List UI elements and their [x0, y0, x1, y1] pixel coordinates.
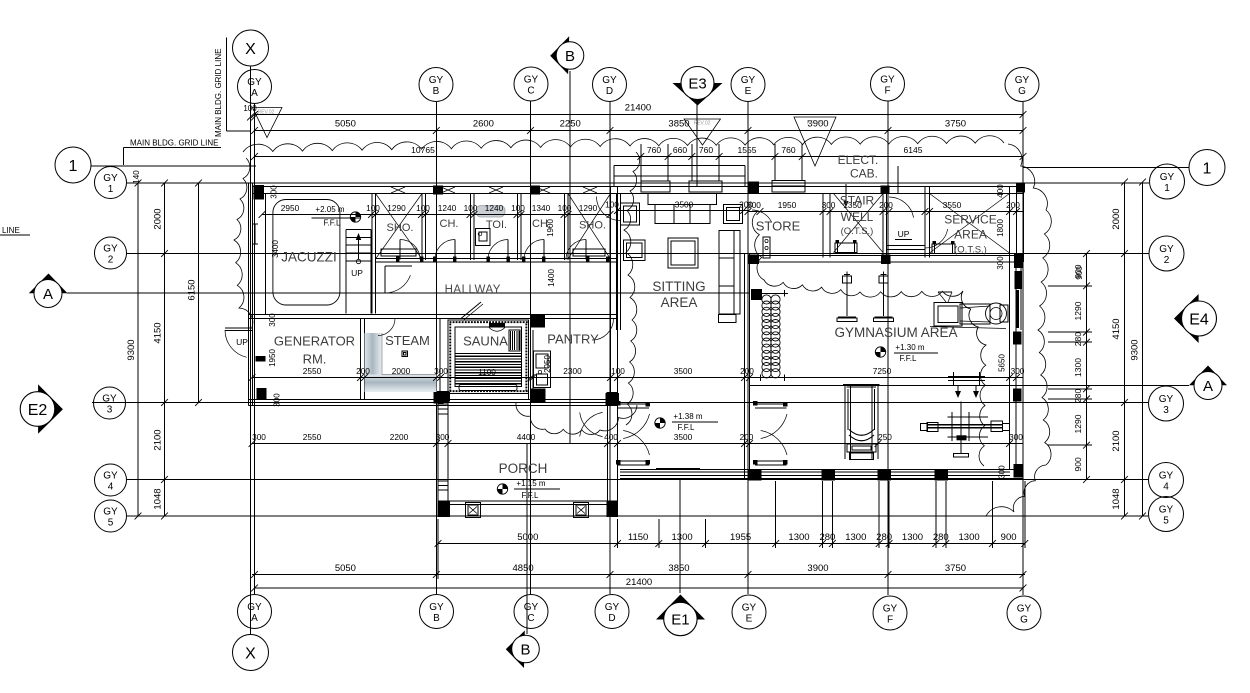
svg-text:REV.02: REV.02 [807, 120, 824, 126]
section line A-A left [67, 292, 750, 294]
sitting coffee table [668, 238, 698, 268]
column hall door jamb [751, 289, 762, 300]
svg-text:1048: 1048 [153, 488, 164, 509]
wall gym west [745, 254, 750, 481]
svg-text:GY: GY [883, 604, 898, 615]
extension lines bottom dims [438, 481, 1025, 579]
svg-text:CH.: CH. [532, 218, 551, 230]
grid bubble GY-E top [731, 68, 765, 102]
svg-text:3500: 3500 [674, 366, 693, 376]
dim line bottom 5050/4850/3850/3900/3750 [251, 563, 1026, 578]
label SAUNA [463, 334, 508, 349]
wall generator/steam [361, 319, 365, 400]
grid line 1 (main bldg, right) [1023, 167, 1189, 169]
svg-text:SHO.: SHO. [387, 222, 414, 234]
dim line top 10765/760/660/760/1555/760/6145 [251, 145, 1026, 160]
shower room 2 cross [568, 194, 611, 260]
svg-text:3500: 3500 [674, 432, 693, 442]
section marker A left [29, 274, 68, 308]
dim line interior lower rooms [249, 366, 1025, 381]
svg-text:250: 250 [878, 432, 892, 442]
svg-text:LINE: LINE [2, 226, 20, 235]
svg-text:200: 200 [740, 432, 754, 442]
stairs by jacuzzi [346, 229, 371, 313]
wall gym east [1010, 262, 1022, 470]
section marker E2 left [20, 384, 63, 433]
wall steam east [437, 319, 441, 400]
svg-text:1240: 1240 [438, 203, 457, 213]
svg-text:100: 100 [464, 203, 478, 213]
column gym south c [935, 469, 949, 481]
grid bubble GY-A top [238, 70, 272, 104]
label main bldg grid line horizontal [124, 139, 221, 166]
svg-text:5: 5 [1163, 516, 1169, 527]
svg-text:UP: UP [236, 337, 248, 347]
grid line GY-C [530, 101, 532, 594]
svg-text:GY: GY [1159, 505, 1174, 516]
label main bldg grid line vertical [214, 38, 251, 138]
svg-text:900: 900 [1001, 532, 1017, 543]
svg-text:1100: 1100 [478, 367, 496, 377]
steam room grey bench [365, 333, 437, 392]
svg-text:3400: 3400 [271, 240, 280, 258]
column GY-A/1 [254, 185, 265, 200]
column gym-east c [1013, 389, 1022, 402]
svg-text:900: 900 [1073, 457, 1083, 471]
svg-text:2200: 2200 [390, 432, 409, 442]
svg-text:G: G [1020, 615, 1028, 626]
svg-text:B: B [565, 48, 575, 65]
svg-text:D: D [608, 613, 615, 624]
svg-text:21400: 21400 [626, 577, 652, 588]
svg-text:UP: UP [898, 229, 910, 239]
svg-text:GY: GY [741, 75, 756, 86]
dim line 9300 left [126, 180, 141, 520]
column GY-F/1 [881, 186, 890, 195]
sitting sofa north [648, 194, 717, 224]
grid line GY-D [609, 102, 611, 594]
svg-text:2100: 2100 [1111, 430, 1122, 451]
section marker E1 bottom [656, 595, 705, 636]
door jamb posts hallway [396, 257, 609, 263]
section marker B bottom [506, 631, 540, 669]
svg-text:100: 100 [558, 203, 572, 213]
dim line 9300 right [1130, 179, 1146, 520]
wall gym north (GY-2) [748, 256, 1024, 263]
wall jacuzzi east [372, 194, 376, 314]
revision cloud gym inner band [752, 212, 986, 466]
column gym south b [822, 469, 836, 481]
svg-text:300: 300 [436, 432, 450, 442]
svg-text:MAIN BLDG. GRID LINE: MAIN BLDG. GRID LINE [130, 139, 218, 148]
door arc TOI [488, 240, 508, 260]
svg-text:1300: 1300 [788, 532, 809, 543]
sauna hatched walls [448, 320, 529, 394]
svg-text:GY: GY [103, 173, 118, 184]
svg-text:GY: GY [247, 77, 262, 88]
grid line X (main bldg) [250, 66, 252, 635]
service cross [930, 194, 1010, 254]
svg-text:A: A [43, 286, 53, 303]
revision triangle GY-E/F [794, 117, 836, 166]
svg-text:PANTRY: PANTRY [547, 332, 599, 347]
svg-text:100: 100 [605, 200, 619, 210]
svg-text:GY: GY [1160, 172, 1175, 183]
grid line GY-A [254, 104, 256, 594]
sauna lintel [489, 323, 505, 331]
svg-text:E3: E3 [688, 76, 706, 93]
svg-text:1300: 1300 [1073, 358, 1083, 377]
svg-text:STAIR: STAIR [840, 194, 875, 208]
wall pantry west [529, 330, 534, 400]
label STORE [756, 219, 801, 234]
svg-text:WELL: WELL [841, 210, 874, 224]
svg-text:E: E [745, 86, 752, 97]
svg-text:GY: GY [605, 602, 620, 613]
pantry north wall [533, 315, 618, 319]
svg-text:GY: GY [103, 244, 118, 255]
wall sitting west (GY-D lower) [617, 194, 621, 331]
svg-text:GY: GY [1159, 394, 1174, 405]
column porch SE [607, 501, 619, 518]
column GY-C/3 [531, 389, 546, 404]
sauna door diagonal [461, 302, 483, 321]
column porch NW [438, 392, 450, 402]
label JACUZZI [281, 250, 337, 265]
svg-text:5: 5 [108, 518, 114, 529]
svg-text:300: 300 [1009, 432, 1023, 442]
svg-text:TOI.: TOI. [486, 219, 507, 231]
svg-text:300: 300 [268, 313, 277, 327]
label UP generator [236, 337, 248, 347]
svg-text:GY: GY [103, 471, 118, 482]
service door arc [925, 229, 948, 248]
svg-text:2: 2 [1164, 255, 1170, 266]
jacuzzi tub [266, 194, 340, 315]
svg-text:140: 140 [132, 170, 141, 184]
grid line GY-B [435, 102, 437, 594]
hallway door leaf [384, 266, 386, 293]
grid line GY-F [887, 101, 889, 595]
svg-text:300: 300 [822, 200, 836, 210]
svg-text:1400: 1400 [547, 269, 556, 287]
sitting chaise east [719, 231, 741, 323]
sitting bay seats [641, 181, 722, 192]
label TOI [486, 219, 507, 231]
svg-text:F.F.L: F.F.L [900, 354, 917, 363]
label UP stairs [351, 268, 363, 278]
grid bubble GY-A bottom [238, 595, 272, 629]
svg-text:UP: UP [351, 268, 363, 278]
svg-text:21400: 21400 [625, 103, 651, 114]
column GY-D/3 [606, 393, 620, 406]
grid bubble 1 left [55, 147, 91, 183]
wall partition CH/SHO [565, 194, 569, 261]
grid bubble GY-B top [419, 68, 453, 102]
stairwell cross [834, 194, 884, 253]
svg-text:2300: 2300 [563, 366, 582, 376]
sauna dim 1100 [478, 367, 496, 377]
svg-text:1: 1 [1164, 183, 1170, 194]
section marker E4 right [1174, 294, 1217, 343]
svg-text:3850: 3850 [668, 563, 689, 574]
svg-text:100: 100 [511, 203, 525, 213]
steam room drain [402, 351, 408, 357]
level jacuzzi [312, 205, 362, 228]
svg-text:2100: 2100 [153, 429, 164, 450]
section line A-A right [750, 385, 1189, 387]
toilet room fixtures [476, 229, 491, 246]
svg-text:JACUZZI: JACUZZI [281, 250, 337, 265]
grid bubble X top [233, 30, 269, 66]
svg-text:GY: GY [103, 507, 118, 518]
svg-text:AREA: AREA [661, 295, 698, 310]
dim line 21400 top [251, 103, 1026, 118]
svg-text:2550: 2550 [303, 366, 322, 376]
porch column ornate east [574, 503, 589, 518]
svg-text:2250: 2250 [560, 119, 581, 130]
dim 100 GY-A offset [243, 104, 258, 120]
wall porch east [608, 392, 618, 517]
wall exterior east upper [1017, 183, 1024, 262]
svg-text:4150: 4150 [1111, 318, 1122, 339]
door arc SHO1 [400, 240, 420, 260]
svg-text:660: 660 [673, 145, 687, 155]
svg-text:X: X [245, 41, 256, 58]
svg-text:4850: 4850 [513, 563, 534, 574]
svg-text:1950: 1950 [778, 200, 797, 210]
revision cloud GY-D vertical band [624, 152, 640, 425]
store door arc [752, 210, 772, 222]
column GY-G/1 [1017, 183, 1025, 193]
svg-text:10765: 10765 [411, 145, 435, 155]
grid line GY-1 [127, 182, 1149, 184]
svg-text:1300: 1300 [902, 532, 923, 543]
section line E1 [679, 478, 681, 593]
grid line GY-G [1022, 102, 1024, 595]
wall service east [1010, 187, 1017, 263]
svg-text:400: 400 [604, 432, 618, 442]
svg-text:GYMNASIUM AREA: GYMNASIUM AREA [834, 325, 957, 340]
svg-text:4: 4 [108, 482, 114, 493]
grid bubble GY-4 left [95, 464, 127, 496]
store rack top [772, 181, 805, 193]
svg-text:GY: GY [1017, 604, 1032, 615]
svg-text:1300: 1300 [845, 532, 866, 543]
svg-text:STORE: STORE [756, 219, 801, 234]
svg-text:5050: 5050 [335, 563, 356, 574]
svg-text:3: 3 [1163, 405, 1169, 416]
svg-text:X: X [245, 646, 256, 663]
svg-text:E4: E4 [1189, 312, 1209, 329]
label HALLWAY [445, 284, 501, 296]
svg-text:4150: 4150 [153, 322, 164, 343]
column GY-B/3 [434, 391, 444, 404]
svg-text:2950: 2950 [281, 203, 300, 213]
svg-text:4: 4 [1163, 482, 1169, 493]
svg-text:GY: GY [429, 602, 444, 613]
sitting door west [597, 197, 621, 221]
section marker E3 top [673, 67, 723, 106]
svg-text:GY: GY [880, 75, 895, 86]
sitting armchair west [624, 240, 646, 261]
svg-text:1300: 1300 [959, 532, 980, 543]
extension lines window dims [641, 144, 802, 181]
svg-text:300: 300 [996, 256, 1005, 270]
column GY-E/1 [749, 182, 760, 194]
store coat rack [763, 237, 770, 258]
grid line GY-5 [127, 515, 1148, 517]
grid line 1 (main bldg, left) [91, 165, 256, 167]
grid line GY-2 [127, 253, 1149, 255]
svg-text:+1.15 m: +1.15 m [516, 479, 545, 488]
svg-text:3750: 3750 [945, 563, 966, 574]
grid bubble GY-D bottom [595, 595, 629, 629]
dim text 140 [132, 170, 141, 184]
svg-text:1: 1 [69, 158, 78, 175]
svg-text:SITTING: SITTING [652, 279, 705, 294]
gym treadmill [930, 292, 1008, 329]
gym lat machine [921, 372, 1010, 457]
grid bubble GY-3 left [94, 387, 126, 419]
column GY-A/3 [257, 388, 267, 400]
sitting side table NE [724, 205, 743, 224]
svg-text:3850: 3850 [668, 119, 689, 130]
grid bubble GY-2 right [1149, 236, 1184, 271]
svg-text:F: F [884, 86, 890, 97]
svg-text:RM.: RM. [303, 352, 327, 367]
label PORCH [499, 461, 548, 476]
column porch NE [607, 392, 618, 402]
svg-text:F.F.L: F.F.L [324, 219, 341, 228]
revision triangle GY-A [253, 108, 283, 138]
toilet grey tub [476, 206, 505, 218]
svg-text:1: 1 [108, 184, 114, 195]
svg-text:CH.: CH. [440, 218, 459, 230]
svg-text:GY: GY [1159, 244, 1174, 255]
revision cloud bottom-right corner [986, 465, 1046, 516]
sauna benches [455, 354, 521, 391]
grid bubble GY-B bottom [420, 595, 454, 629]
svg-text:1290: 1290 [1073, 414, 1083, 433]
revision triangle E3 [684, 119, 721, 145]
grid bubble GY-F top [871, 67, 905, 101]
svg-text:+1.38 m: +1.38 m [673, 412, 702, 421]
sitting bay window [614, 166, 745, 187]
column gym south GY-E [748, 469, 762, 481]
gym double door upper [753, 401, 788, 439]
grid line GY-E [747, 102, 749, 594]
label up lobby [895, 229, 912, 240]
dim line right 2000/4150/2100/1048 [1111, 179, 1128, 520]
section line E3 [696, 104, 698, 186]
grid bubble GY-G bottom [1007, 596, 1041, 630]
svg-text:REV.02: REV.02 [694, 121, 711, 127]
svg-text:MAIN BLDG. GRID LINE: MAIN BLDG. GRID LINE [214, 49, 223, 137]
wall hallway south [249, 315, 618, 319]
label CH 1 [440, 218, 459, 230]
svg-text:A: A [1203, 378, 1213, 395]
svg-text:280: 280 [933, 532, 949, 543]
wall partition CH/TOI [471, 194, 475, 261]
wall porch west [438, 392, 448, 517]
svg-text:GY: GY [524, 75, 539, 86]
wall service west [925, 187, 930, 258]
svg-text:6150: 6150 [187, 279, 198, 300]
svg-text:3900: 3900 [807, 563, 828, 574]
svg-text:C: C [527, 613, 534, 624]
svg-text:300: 300 [998, 465, 1007, 479]
column GY-B/1 [433, 186, 443, 195]
svg-text:D: D [606, 86, 613, 97]
door arc CH2 [524, 240, 544, 260]
elect cab leader [897, 166, 899, 193]
svg-text:HALLWAY: HALLWAY [445, 284, 501, 296]
revision cloud left band [234, 158, 253, 327]
section line B-B [527, 71, 570, 634]
svg-text:GY: GY [1015, 75, 1030, 86]
svg-text:2550: 2550 [303, 432, 322, 442]
svg-text:1950: 1950 [268, 349, 277, 367]
wall gym south inner lines [620, 469, 1010, 476]
grid bubble GY-E bottom [732, 595, 766, 629]
column gym south-east GY-G [1014, 464, 1024, 478]
svg-text:3750: 3750 [945, 119, 966, 130]
svg-text:STEAM: STEAM [385, 333, 430, 348]
terrace double door west lower [616, 431, 650, 466]
sauna wall dots [449, 321, 527, 392]
level porch [497, 479, 560, 500]
svg-text:3: 3 [107, 405, 113, 416]
svg-text:1150: 1150 [628, 532, 648, 543]
label CH 2 [532, 218, 551, 230]
svg-text:300: 300 [434, 366, 448, 376]
grid bubble GY-4 right [1149, 463, 1184, 498]
label PANTRY [547, 332, 599, 347]
wall gym south [620, 470, 1024, 479]
wall partition SHO/CH [422, 194, 426, 261]
svg-text:(O.T.S.): (O.T.S.) [841, 226, 874, 237]
column GY-E/2 [749, 255, 760, 265]
svg-text:1240: 1240 [485, 203, 504, 213]
sauna heater [509, 330, 520, 351]
svg-text:GY: GY [1159, 471, 1174, 482]
svg-text:1290: 1290 [1073, 301, 1083, 320]
svg-text:5650: 5650 [998, 354, 1007, 372]
dim line interior upper rooms [259, 203, 614, 218]
svg-text:3550: 3550 [943, 200, 962, 210]
level sitting terrace [655, 412, 718, 432]
svg-text:GENERATOR: GENERATOR [274, 334, 355, 349]
sitting side table NW [621, 203, 640, 225]
gym leg press [843, 385, 880, 460]
wall partition TOI/CH [518, 194, 522, 261]
svg-text:+2.05 m: +2.05 m [315, 205, 344, 214]
stairwell bench [835, 240, 857, 253]
svg-text:5050: 5050 [335, 119, 356, 130]
grid bubble X bottom [233, 635, 269, 671]
door arc SHO2 [566, 240, 586, 260]
svg-text:2600: 2600 [473, 119, 494, 130]
svg-text:1: 1 [1203, 161, 1212, 178]
pantry door arc [592, 319, 614, 341]
svg-text:AREA: AREA [954, 228, 987, 242]
column GY-C/hall [531, 315, 545, 328]
gym coil equipment [757, 290, 788, 381]
svg-text:(O.T.S.): (O.T.S.) [954, 245, 987, 256]
dim line top spans 5050/2600/2250/3850/3900/3750 [251, 119, 1026, 134]
wall left-wing south (GY-3) [249, 400, 618, 406]
